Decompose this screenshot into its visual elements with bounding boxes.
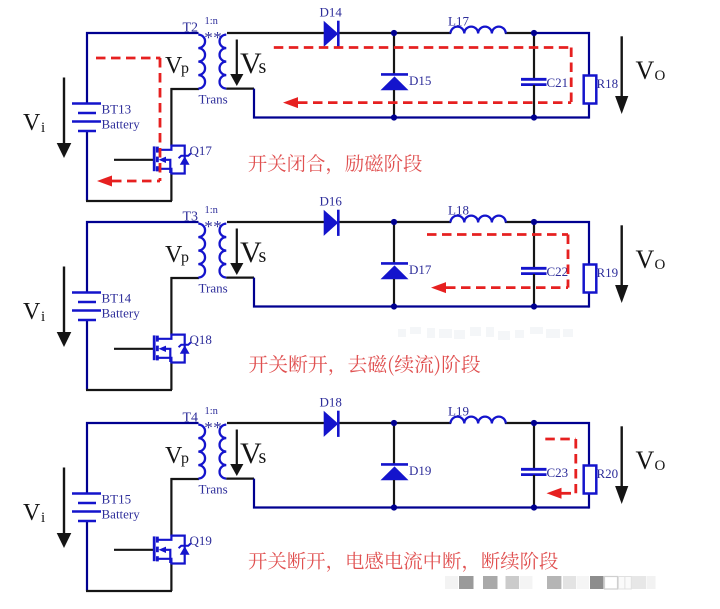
svg-text:Trans: Trans xyxy=(199,482,228,497)
svg-text:V: V xyxy=(636,446,655,475)
svg-text:D14: D14 xyxy=(320,5,343,20)
svg-text:L18: L18 xyxy=(448,203,469,218)
svg-text:V: V xyxy=(23,110,41,136)
svg-text:p: p xyxy=(181,450,189,467)
svg-text:D18: D18 xyxy=(320,395,342,410)
svg-text:R20: R20 xyxy=(597,466,619,481)
svg-text:O: O xyxy=(655,458,666,474)
svg-text:BT13: BT13 xyxy=(102,102,132,117)
svg-text:T4: T4 xyxy=(183,411,199,426)
svg-text:Battery: Battery xyxy=(102,117,141,132)
svg-text:L19: L19 xyxy=(448,404,469,419)
svg-text:Trans: Trans xyxy=(199,281,228,296)
svg-text:D16: D16 xyxy=(320,194,343,209)
svg-text:D19: D19 xyxy=(409,463,431,478)
svg-text:BT15: BT15 xyxy=(102,492,132,507)
svg-text:1:n: 1:n xyxy=(205,16,219,27)
svg-text:C21: C21 xyxy=(547,75,569,90)
svg-text:s: s xyxy=(259,56,267,78)
svg-text:V: V xyxy=(636,56,655,85)
svg-text:p: p xyxy=(181,60,189,77)
svg-text:*: * xyxy=(213,217,222,236)
svg-text:1:n: 1:n xyxy=(205,205,219,216)
svg-text:R18: R18 xyxy=(597,76,619,91)
svg-text:*: * xyxy=(204,217,213,236)
svg-text:V: V xyxy=(23,500,41,526)
svg-text:BT14: BT14 xyxy=(102,291,132,306)
svg-text:Q19: Q19 xyxy=(190,533,212,548)
svg-text:C23: C23 xyxy=(547,465,569,480)
svg-text:O: O xyxy=(655,257,666,273)
svg-text:T3: T3 xyxy=(183,210,199,225)
svg-text:Trans: Trans xyxy=(199,92,228,107)
svg-text:R19: R19 xyxy=(597,265,619,280)
svg-text:O: O xyxy=(655,68,666,84)
svg-text:V: V xyxy=(23,299,41,325)
svg-text:*: * xyxy=(204,418,213,437)
svg-text:L17: L17 xyxy=(448,14,469,29)
svg-text:T2: T2 xyxy=(183,21,199,36)
svg-text:Battery: Battery xyxy=(102,507,141,522)
svg-text:C22: C22 xyxy=(547,264,569,279)
svg-text:Q17: Q17 xyxy=(190,143,213,158)
svg-text:s: s xyxy=(259,446,267,468)
svg-text:D15: D15 xyxy=(409,73,431,88)
svg-text:1:n: 1:n xyxy=(205,406,219,417)
svg-text:i: i xyxy=(41,309,45,325)
svg-text:i: i xyxy=(41,120,45,136)
svg-text:*: * xyxy=(204,28,213,47)
svg-text:Battery: Battery xyxy=(102,306,141,321)
svg-text:p: p xyxy=(181,249,189,266)
svg-text:s: s xyxy=(259,245,267,267)
svg-text:V: V xyxy=(636,245,655,274)
svg-text:*: * xyxy=(213,418,222,437)
svg-text:D17: D17 xyxy=(409,262,432,277)
svg-text:Q18: Q18 xyxy=(190,332,212,347)
svg-text:i: i xyxy=(41,510,45,526)
svg-text:*: * xyxy=(213,28,222,47)
